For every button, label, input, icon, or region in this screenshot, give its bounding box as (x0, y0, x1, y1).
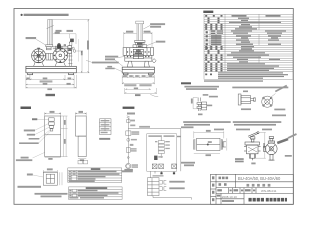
pipe size label 1.5B (55, 32, 60, 34)
union labels (203, 94, 209, 96)
anchor detail drawing (47, 168, 53, 170)
svg-text:2008.10.10: 2008.10.10 (222, 195, 237, 199)
end view legs (127, 61, 132, 67)
discharge diamond right (152, 59, 156, 63)
strip exit wire (153, 196, 192, 200)
bottom-left note (35, 193, 68, 195)
discharge pipe down (68, 53, 72, 66)
ball valve front view (244, 132, 261, 161)
blower inlet knob (57, 44, 61, 48)
vertical check valve right (68, 46, 72, 54)
mount leader labels (32, 118, 37, 120)
thermal protector (154, 156, 157, 160)
vibration-mount label + leader (26, 37, 36, 39)
union note lines (184, 86, 219, 88)
row1: product name (219, 177, 229, 180)
motor (32, 49, 46, 63)
row2: drawing name (219, 183, 227, 186)
end view housing band 1 (123, 48, 154, 56)
end view silencer pipe (136, 21, 144, 40)
mount side rect (76, 116, 87, 157)
mounting section heading (21, 107, 32, 110)
flex joint (238, 94, 255, 105)
row4: date + company (217, 195, 221, 197)
motor windings (152, 164, 176, 169)
accessories heading (181, 82, 191, 84)
company name (249, 198, 288, 202)
bottom-left table 1 (68, 168, 122, 183)
end view inlet valve cluster (133, 41, 147, 48)
coupling (46, 53, 53, 60)
drawing frame (14, 9, 293, 205)
capacitor comp (126, 148, 130, 153)
main wire (127, 119, 129, 164)
mount dim 200 (50, 111, 55, 113)
control box outline (147, 134, 177, 171)
legend panel (100, 119, 112, 135)
end view center gear housing (133, 49, 143, 58)
mount bottom dim texts (48, 158, 52, 160)
small leader mark above wiring (150, 94, 158, 96)
notes right column (233, 121, 281, 123)
valve label (235, 158, 244, 160)
blower (53, 48, 68, 63)
front view silencer pipe (47, 20, 54, 45)
end view housing band 2 (125, 55, 152, 61)
bolt dots band (127, 51, 150, 57)
strainer handle (277, 138, 289, 144)
AC mark (130, 144, 134, 146)
AC100V label (127, 113, 135, 115)
leakage breaker (126, 131, 131, 136)
branch to control box (128, 127, 181, 129)
strainer top view (264, 137, 278, 161)
end view base (122, 67, 154, 75)
motor feet (34, 62, 44, 66)
note under table (204, 80, 263, 82)
relief fittings small circles (72, 47, 76, 52)
hose band note line (232, 87, 288, 89)
row3: scale / unit / dwg no (217, 189, 255, 191)
top dim over discharge (56, 30, 62, 32)
mid symbol (127, 138, 130, 141)
wiring heading (123, 107, 135, 109)
clamp label (122, 170, 133, 172)
mount front rect (45, 116, 61, 157)
silencer cylinder (194, 131, 227, 153)
terminal strip (148, 178, 160, 196)
svg-text:WN-0B-011: WN-0B-011 (261, 189, 277, 193)
rubber mount leader note (86, 60, 92, 62)
title block (211, 174, 294, 204)
plug symbol (127, 116, 130, 119)
right drop wire (180, 128, 182, 171)
anchor position note (21, 157, 29, 159)
valve right dim (256, 133, 266, 159)
mount right dims (61, 116, 68, 157)
union fitting (197, 98, 207, 112)
blower bolts (54, 49, 68, 63)
end view silencer label (150, 23, 165, 25)
spec table grid (204, 14, 293, 79)
breaker switch (127, 120, 130, 123)
title block vertical strip chars (212, 176, 214, 201)
flange face (262, 96, 273, 107)
small node (127, 157, 129, 159)
box top labels (148, 135, 162, 136)
motor terminal mark (37, 48, 40, 50)
connector symbols (160, 180, 167, 190)
spec table texts (205, 15, 288, 79)
part labels row (214, 129, 224, 131)
front view dim extensions (26, 75, 76, 89)
terminals below box (154, 171, 156, 173)
circled mark (126, 165, 130, 169)
relay stack (158, 137, 164, 158)
check valve under flange (46, 47, 51, 50)
end view left label (105, 56, 118, 58)
horizontal discharge run (53, 44, 68, 50)
gooseneck discharge curve (70, 40, 73, 43)
sheet title top-left (21, 14, 69, 16)
blower foot (55, 62, 65, 66)
right vertical dims (53, 20, 90, 73)
solenoid dark component (70, 39, 74, 43)
union vertical dim (193, 98, 197, 109)
end view dims below (122, 75, 156, 94)
front view dim texts (26, 78, 29, 80)
bottom-left table 2 (69, 187, 123, 200)
A-detail note (107, 66, 112, 68)
strip feeder wire (150, 171, 152, 178)
pipe bottom flange (46, 45, 53, 47)
base frame (26, 66, 76, 74)
front view caption (46, 94, 56, 96)
svg-text:BU-40A/50, BU-40A/60: BU-40A/50, BU-40A/60 (238, 176, 281, 181)
spec table heading (203, 11, 213, 13)
dimension arrow ticks (26, 20, 156, 114)
end view suction label (156, 41, 166, 43)
part number label (silencer) (181, 126, 194, 128)
dim extension line right of valve (78, 39, 80, 62)
motor symbol (126, 163, 131, 168)
notes left column (183, 121, 231, 123)
small twin boxes above table 1 (78, 160, 88, 164)
end view top dim (124, 32, 152, 47)
cord label (130, 125, 135, 127)
